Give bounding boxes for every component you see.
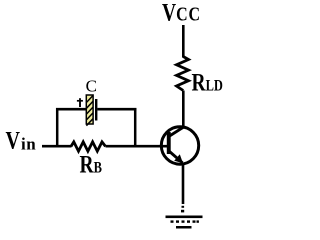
transistor Q1 emitter stroke xyxy=(170,152,183,163)
ground top bar xyxy=(166,216,203,219)
wire loop top left segment xyxy=(56,108,87,111)
svg-text:RLD: RLD xyxy=(192,68,223,96)
label R_B xyxy=(80,150,103,178)
wire loop left edge xyxy=(56,108,59,147)
label C xyxy=(86,76,97,95)
ground dot 2 xyxy=(181,210,184,213)
svg-text:C: C xyxy=(86,76,97,95)
ground hatch marks xyxy=(171,220,199,222)
transistor Q1 base bar xyxy=(167,132,171,154)
label R_LD xyxy=(192,68,223,96)
transistor Q1 collector stroke xyxy=(170,127,185,136)
node Vcc label xyxy=(162,0,201,26)
label Vin xyxy=(6,126,21,154)
svg-text:in: in xyxy=(21,135,36,154)
svg-text:RB: RB xyxy=(80,150,103,178)
resistor R_LD xyxy=(177,57,189,91)
wire Vcc to R_LD xyxy=(182,25,185,58)
capacitor C plus mark xyxy=(77,98,83,107)
wire R_B to base xyxy=(106,145,169,148)
ground bottom bar xyxy=(176,226,192,229)
transistor Q1 emitter arrowhead xyxy=(174,154,183,163)
wire loop right edge xyxy=(134,108,137,147)
wire emitter down xyxy=(182,164,185,205)
capacitor C left plate xyxy=(86,95,93,126)
capacitor C right plate xyxy=(95,99,97,121)
wire Vin to node A xyxy=(42,145,72,148)
wire cap to loop corner xyxy=(97,108,136,111)
resistor R_B xyxy=(71,142,106,151)
ground dot 1 xyxy=(182,206,185,208)
svg-text:V: V xyxy=(6,126,21,154)
wire R_LD to collector xyxy=(182,91,185,129)
svg-text:VCC: VCC xyxy=(162,0,201,26)
transistor Q1 circle xyxy=(161,127,198,164)
